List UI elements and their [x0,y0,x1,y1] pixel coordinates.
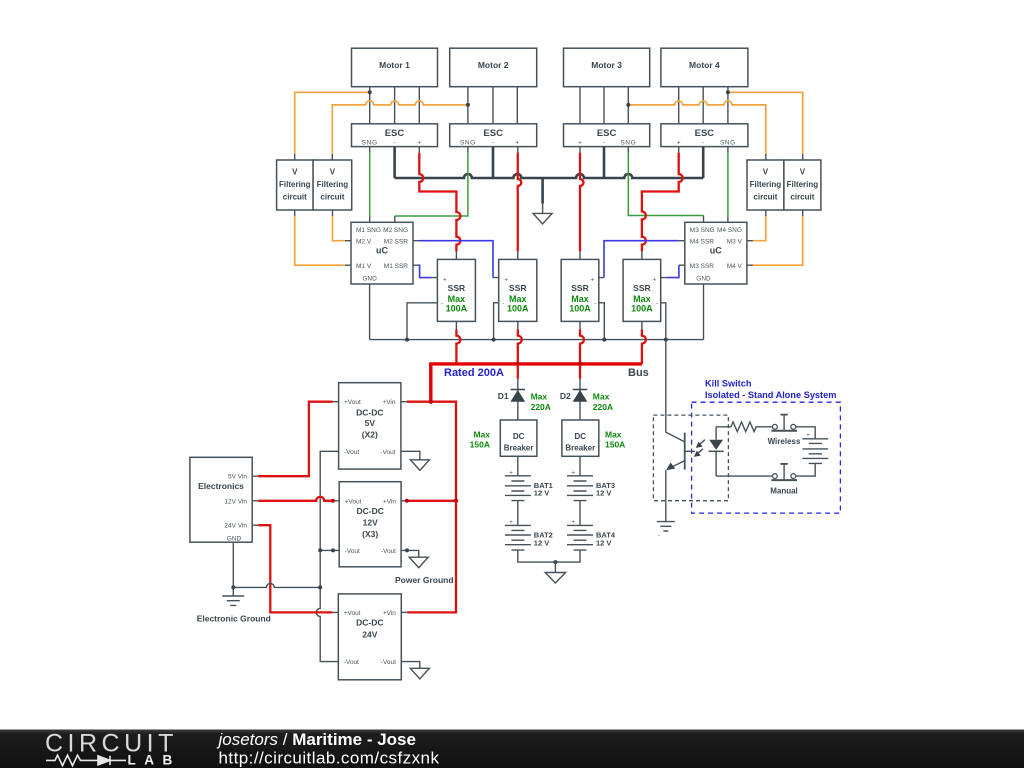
resistor R1 [716,422,772,432]
SSR U8 [499,259,537,321]
wire orange V-filter D to uC2 M4V [747,210,803,265]
battery BAT4 12V [555,519,615,562]
wire SSR1 minus to control ground [407,303,437,340]
switch SW1 Wireless (pushbutton) [768,415,801,446]
svg-text:M1 SSR: M1 SSR [384,263,409,270]
svg-text:D2: D2 [560,391,571,401]
svg-text:LAB: LAB [128,752,181,767]
SSR U10 [623,259,661,321]
svg-text:DC-DC: DC-DC [356,408,383,418]
V filtering circuit box C [747,160,784,210]
wire red Electronics 5V Vin to 5V +Vout [252,402,338,477]
svg-text:+: + [677,140,681,147]
wire red ESC3 plus to SSR3 [580,147,584,260]
svg-text:+: + [591,277,595,284]
svg-text:12V Vin: 12V Vin [224,498,247,505]
svg-text:+Vout: +Vout [344,399,361,406]
svg-text:D1: D1 [498,391,509,401]
node junction rail at 12V -Vout [318,548,322,552]
svg-text:Bus: Bus [628,367,649,379]
node junction bus / D1 [516,362,520,366]
svg-text:+: + [652,277,656,284]
svg-text:M4 V: M4 V [727,263,743,270]
V filtering circuit box D [784,160,821,210]
ESC U4 [661,124,748,147]
wire wireless to battery [796,427,815,439]
DC-DC converter 24V box [338,594,401,680]
wire SSR3 minus to control ground [599,303,605,340]
svg-text:+Vout: +Vout [344,610,361,617]
svg-text:-Vout: -Vout [344,659,359,666]
svg-text:GND: GND [362,276,377,283]
svg-text:-: - [394,140,396,147]
svg-text:GND: GND [227,535,242,542]
wire red bus to D2 [579,364,581,379]
svg-text:SSR: SSR [633,283,650,293]
svg-text:24V Vin: 24V Vin [224,523,247,530]
wire blue uC2 M3SSR to SSR4 plus [661,265,685,277]
svg-text:5V Vin: 5V Vin [228,474,247,481]
svg-text:24V: 24V [362,629,377,639]
gray dashed enclosure optocoupler [653,415,728,501]
wire motor4 to ESC4 [679,87,728,124]
svg-text:Max: Max [448,294,466,304]
svg-text:Filtering: Filtering [279,180,311,189]
node junction 12V -Vout pin [331,548,335,552]
wire manual to LED cathode [716,475,772,477]
wire green ESC4 SNG to uC2 M4SNG [727,147,729,223]
svg-text:-: - [492,140,494,147]
wire ESC2 minus to ground bus [492,147,495,178]
wire ESC1 minus to ground bus [393,147,396,178]
svg-text:-Vout: -Vout [381,659,396,666]
node junction SSR1 minus [405,338,409,342]
wire red SSR3 output to bus [580,321,584,364]
svg-text:150A: 150A [470,440,490,450]
svg-text:Motor 2: Motor 2 [478,60,509,70]
svg-text:Rated 200A: Rated 200A [444,367,504,379]
svg-text:ESC: ESC [695,128,715,139]
svg-text:V: V [800,168,806,177]
wire red SSR2 output to bus [518,321,522,364]
wire uC2 GND down [703,284,705,340]
svg-text:-Vout: -Vout [380,449,395,456]
svg-text:12 V: 12 V [596,538,611,547]
node junction motor1 SNG / orange [368,90,372,94]
ground symbol center (V-ss triangle) [533,178,552,224]
svg-text:Manual: Manual [770,486,798,495]
svg-text:DC-DC: DC-DC [357,506,384,516]
ground symbol kill switch (earth) [657,522,675,540]
svg-text:SNG: SNG [460,140,476,147]
svg-text:100A: 100A [507,304,529,314]
svg-text:ESC: ESC [483,128,503,139]
wire motor2 to ESC2 [468,87,517,124]
wire orange motor1-SNG to V-filter A [295,92,370,160]
wire red Electronics 24V Vin to 24V +Vout [252,525,338,612]
svg-text:Motor 4: Motor 4 [689,60,720,70]
svg-text:-: - [441,301,443,308]
wire blue uC1 M2SSR to SSR2 plus [413,241,499,278]
wire green ESC1 SNG to uC1 M1SNG [369,147,371,223]
svg-text:-: - [702,140,704,147]
svg-text:Filtering: Filtering [317,180,349,189]
DC Breaker CB1 [470,420,537,456]
battery V1 (kill switch battery) [796,432,828,476]
wire ESC3 minus to ground bus [603,147,606,178]
wire red 12V +Vin from bus drop [401,500,456,502]
diode D2 [560,379,613,420]
svg-text:Max: Max [531,392,548,402]
ESC U2 [450,124,537,147]
wire gray 24V -Vout right to power ground [401,662,429,679]
V filtering circuit box B [313,160,352,210]
svg-text:GND: GND [696,276,711,283]
wire motor3 to ESC3 [580,87,628,124]
svg-text:circuit: circuit [320,192,344,201]
node junction bus drop at 12V row [454,499,458,503]
DC-DC converter 5V box [339,383,401,469]
blue dashed enclosure kill switch [692,402,841,513]
svg-text:+: + [578,140,582,147]
svg-text:Breaker: Breaker [504,444,534,453]
svg-text:circuit: circuit [283,192,307,201]
wire orange motor2-SNG to V-filter B (hops over motor1 wires) [332,101,468,160]
svg-text:220A: 220A [593,402,613,412]
wire kill-switch tap down to phototransistor [665,340,667,433]
svg-text:Kill Switch: Kill Switch [705,379,752,389]
svg-text:+Vin: +Vin [382,399,395,406]
svg-text:100A: 100A [569,304,591,314]
wire blue uC1 M1SSR to SSR1 plus [413,265,437,277]
svg-text:5V: 5V [365,418,376,428]
wire ESC4 minus to ground bus [702,147,705,178]
wire orange V-filter B to uC1 M2V [333,210,352,241]
node junction SSR2 minus [492,338,496,342]
svg-text:SSR: SSR [509,283,526,293]
wire red main bus Rated 200A [431,364,642,402]
wire red ESC1 plus to SSR1 (hops bus, green, blue) [419,147,460,260]
light arrows into phototransistor [694,440,705,457]
wire red bus drop to 5V +Vin and down [401,402,456,501]
svg-text:Wireless: Wireless [768,437,801,446]
wire red 24V +Vin from bus drop [401,501,456,613]
SSR U7 [437,259,475,321]
svg-text:circuit: circuit [790,192,814,201]
wire green ESC2 SNG to uC1 M2SNG [395,147,468,223]
svg-text:ESC: ESC [385,128,405,139]
node junction motor2 SNG / orange [466,103,470,107]
svg-text:Motor 3: Motor 3 [591,60,622,70]
svg-text:http://circuitlab.com/csfzxnk: http://circuitlab.com/csfzxnk [219,748,440,767]
motor M3 [564,48,650,86]
svg-text:-Vout: -Vout [381,548,396,555]
wire ground bus horizontal (hops over green and red verticals) [395,174,704,178]
svg-text:+Vout: +Vout [345,498,362,505]
svg-text:M2 SNG: M2 SNG [383,227,408,234]
svg-text:Breaker: Breaker [565,444,595,453]
node junction bus drop / 5V Vin [429,400,433,404]
svg-text:+Vin: +Vin [383,498,396,505]
DC Breaker CB2 [562,420,625,456]
ESC U3 [564,124,650,147]
svg-text:M3 SNG: M3 SNG [690,227,715,234]
wire control ground horizontal [370,339,704,341]
svg-text:+: + [443,277,447,284]
logo resistor-diode glyph [46,755,126,765]
svg-text:M2 V: M2 V [356,238,372,245]
battery BAT3 12V [567,456,615,525]
motor M2 [450,48,537,86]
svg-text:SNG: SNG [620,140,636,147]
svg-text:100A: 100A [446,304,468,314]
wire Electronics GND down [232,542,234,596]
phototransistor Q1 [666,432,695,521]
wire gray 5V -Vout left rail down to 24V -Vout (hops red) [316,451,338,661]
svg-text:M4 SNG: M4 SNG [717,227,742,234]
svg-text:M3 SSR: M3 SSR [690,263,715,270]
svg-text:+: + [806,432,810,439]
node junction SSR4 minus / kill-switch tap [664,338,668,342]
ground symbol batteries (triangle) [545,562,565,583]
svg-text:SNG: SNG [720,140,736,147]
battery BAT2 12V [505,519,556,562]
svg-text:12 V: 12 V [534,489,549,498]
svg-text:-: - [658,533,660,540]
svg-text:+: + [515,140,519,147]
svg-text:V: V [330,168,336,177]
svg-text:M3 V: M3 V [727,238,743,245]
node junction battery ground [553,560,557,564]
svg-text:-: - [603,140,605,147]
wire green ESC3 SNG to uC2 M3SNG [628,147,703,223]
node junction motor4 SNG / orange [726,90,730,94]
svg-text:+: + [417,140,421,147]
wire blue uC2 M4SSR to SSR3 plus [599,241,685,278]
wire orange motor4-SNG to V-filter D [728,92,803,160]
node junction SSR3 minus [602,338,606,342]
svg-text:SNG: SNG [362,140,378,147]
svg-text:(X2): (X2) [362,429,378,439]
ground symbol electronic (earth) [222,596,244,605]
svg-text:Isolated - Stand Alone System: Isolated - Stand Alone System [705,390,836,400]
svg-text:+Vin: +Vin [383,610,396,617]
svg-text:-: - [502,301,504,308]
svg-text:-: - [656,301,658,308]
svg-text:Power Ground: Power Ground [395,575,454,585]
node junction bus / D2 [578,362,582,366]
wire SSR4 minus to control ground [661,303,666,340]
uC U5 (left microcontroller) [351,222,413,284]
wire uC1 GND down [369,284,371,340]
svg-text:uC: uC [376,246,388,256]
wire orange V-filter A to uC1 M1V [295,210,351,265]
wire red ESC4 plus to SSR4 (hops bus, green, blue) [642,147,683,260]
svg-text:Filtering: Filtering [750,180,782,189]
wire gray electronic ground to rail (hops red 24V wire) [233,583,320,587]
svg-text:Electronics: Electronics [198,481,244,491]
svg-text:150A: 150A [605,440,625,450]
svg-text:Max: Max [571,294,589,304]
uC U6 (right microcontroller) [685,222,747,284]
svg-text:M1 V: M1 V [356,263,372,270]
svg-text:Max: Max [509,294,527,304]
node junction 12V -Vout right pin [405,548,409,552]
svg-text:12 V: 12 V [596,489,611,498]
SSR U9 [561,259,599,321]
svg-text:V: V [292,168,298,177]
svg-text:+: + [504,277,508,284]
LED D3 (optocoupler emitter) [709,427,724,476]
svg-text:ESC: ESC [597,128,617,139]
wire orange V-filter C to uC2 M3V [747,210,766,241]
node junction motor3 SNG / orange [626,103,630,107]
svg-text:Max: Max [633,294,651,304]
svg-text:M4 SSR: M4 SSR [690,238,715,245]
svg-text:Max: Max [605,429,622,439]
svg-text:M1 SNG: M1 SNG [356,227,381,234]
svg-text:-Vout: -Vout [345,548,360,555]
svg-text:Max: Max [593,392,610,402]
wire red SSR4 output to bus [642,321,646,364]
node junction 12V +Vout pin [331,499,335,503]
svg-text:Motor 1: Motor 1 [379,60,410,70]
wire orange motor3-SNG to V-filter C (hops over motor4 wires) [628,101,766,160]
svg-text:-: - [594,301,596,308]
diode D1 [498,379,551,420]
switch SW2 Manual (pushbutton) [770,464,798,496]
svg-text:DC-DC: DC-DC [356,618,383,628]
wire red Electronics 12V Vin to 12V +Vout (hops gray rail) [252,497,339,501]
svg-text:100A: 100A [631,304,653,314]
ESC U1 [352,124,438,147]
svg-text:(X3): (X3) [362,529,378,539]
svg-text:M2 SSR: M2 SSR [384,238,409,245]
wire red ESC2 plus to SSR2 [518,147,522,260]
svg-text:Electronic Ground: Electronic Ground [197,614,271,624]
wire SSR2 minus to control ground [494,303,499,340]
svg-text:-Vout: -Vout [344,449,359,456]
svg-text:Filtering: Filtering [787,180,819,189]
wire motor1 to ESC1 (3 phases) [370,87,420,124]
svg-text:V: V [763,168,769,177]
svg-text:circuit: circuit [753,192,777,201]
wire red SSR1 output to bus (hops control ground) [456,321,460,364]
svg-text:Max: Max [473,429,490,439]
svg-text:DC: DC [575,432,587,441]
svg-text:DC: DC [513,432,525,441]
motor M1 [352,48,438,86]
V filtering circuit box A [277,160,314,210]
svg-text:SSR: SSR [448,283,465,293]
motor M4 [661,48,748,86]
node junction 12V +Vin pin [405,499,409,503]
footer bar [0,730,1024,768]
node junction rail / electronic ground [318,585,322,589]
node junction electronic ground [231,585,235,589]
svg-text:12 V: 12 V [534,538,549,547]
wire red bus to D1 [517,364,519,379]
Electronics box [190,457,252,542]
svg-text:220A: 220A [531,402,551,412]
battery BAT1 12V [505,456,553,525]
wire gray 12V -Vout right to power ground [401,550,428,567]
svg-text:12V: 12V [363,517,378,527]
svg-text:uC: uC [710,246,722,256]
wire gray 5V -Vout right to ground [401,451,430,470]
svg-text:josetors / Maritime - Jose: josetors / Maritime - Jose [217,730,416,749]
svg-text:SSR: SSR [571,283,588,293]
wire gray 12V -Vout left to rail [320,549,339,551]
DC-DC converter 12V box [339,482,401,567]
